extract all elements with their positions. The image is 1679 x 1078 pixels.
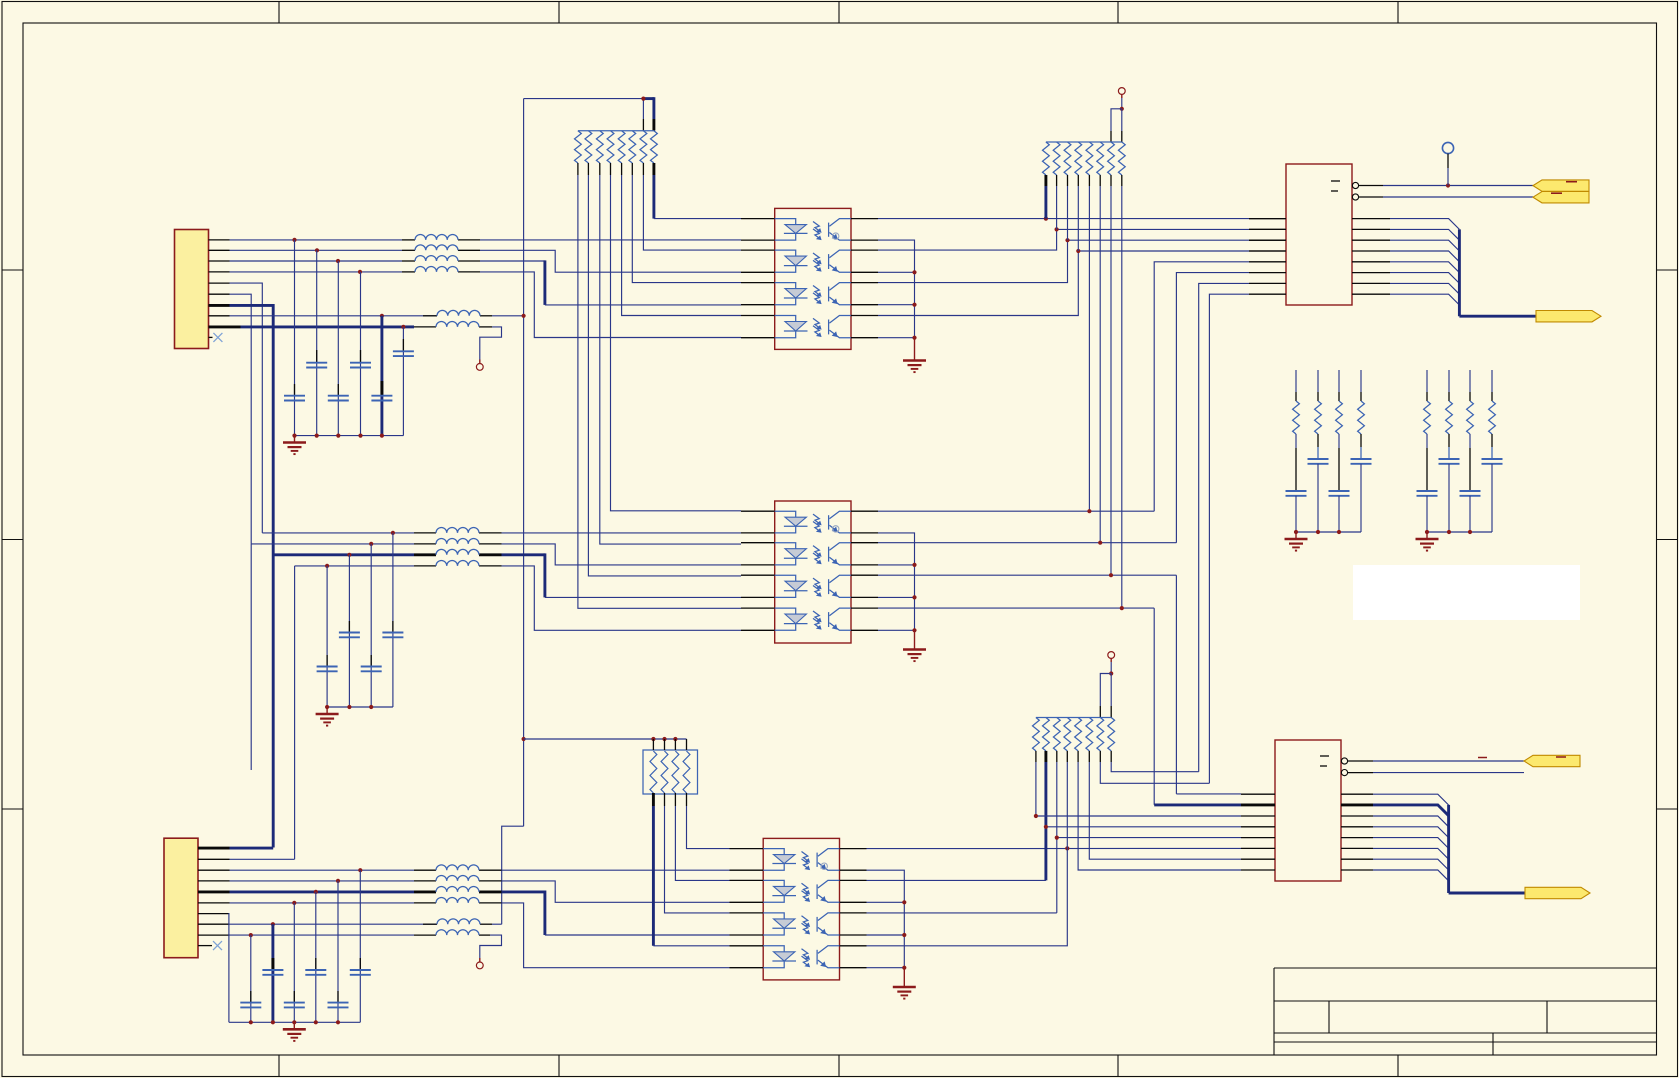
- capacitor C5f: [1417, 490, 1438, 492]
- wire U2 ch2 collector jog up to y229.4: [878, 229, 1249, 250]
- wire RN1.4 to opto anode1: [687, 806, 730, 849]
- resistor RP1.7: [640, 131, 647, 163]
- wire RP2.8 pull-up to mid ch4: [1121, 186, 1123, 608]
- wire x294 down to J2 pin2: [294, 566, 296, 859]
- J2 pin10 stub: [198, 945, 212, 947]
- capacitor C15: [284, 1002, 305, 1004]
- inductor L14: [436, 898, 479, 903]
- white note box: [1353, 565, 1580, 620]
- J2 pin3 stub: [198, 869, 230, 871]
- capacitor C9: [317, 666, 338, 668]
- resistor RP4.6: [1086, 718, 1093, 751]
- wire RP1.5 to opto anode4: [622, 175, 741, 316]
- resistor RP4.4: [1064, 718, 1071, 751]
- wire RP4.4 pull-up: [1066, 762, 1068, 848]
- U5 left pin stubs: [1241, 793, 1275, 795]
- inductor L1: [415, 235, 458, 240]
- wire J1.3 net row y261 jog to y305 (thick jog): [230, 260, 403, 262]
- connector J2: [164, 838, 198, 958]
- wire RP4.7 row y783: [1100, 762, 1209, 783]
- wire riser mid-ch2 to U1: [1176, 273, 1249, 543]
- U5 inverted output pins: [1341, 758, 1347, 764]
- inductor L12: [436, 876, 479, 881]
- red stub: [479, 360, 481, 364]
- wire U1 outA to arrow: [1383, 185, 1533, 187]
- resistor R4f: [1358, 401, 1365, 434]
- J1 pin3 stub: [209, 260, 230, 262]
- inductor L6: [436, 322, 479, 327]
- inductor L4: [415, 267, 458, 272]
- capacitor C12: [305, 969, 326, 971]
- border tick right: [1657, 808, 1678, 810]
- resistor array RP2 top bus: [1046, 141, 1122, 143]
- capacitor C2: [306, 362, 327, 364]
- ground GND8: [893, 987, 916, 999]
- wire RN1.1 thick to opto anode4: [652, 806, 655, 946]
- wire U2 emitter bus to ground: [878, 240, 915, 338]
- wire mid row y544 jog to y565: [251, 543, 414, 545]
- capacitor C10: [361, 666, 382, 668]
- inductor L3: [415, 256, 458, 261]
- gnd stem: [294, 436, 296, 442]
- wire RP1.2 to mid opto anode3: [588, 175, 741, 576]
- U5 right pin stubs: [1341, 793, 1373, 795]
- border tick top: [838, 2, 840, 24]
- gnd stem: [914, 338, 916, 360]
- capacitor C11: [262, 969, 283, 971]
- wire RP4.3 pull-up: [1056, 762, 1058, 913]
- border tick bottom: [838, 1055, 840, 1077]
- border tick left: [2, 539, 23, 541]
- wire U5 row y794: [1176, 793, 1241, 795]
- capacitor C8f: [1482, 458, 1503, 460]
- wire RP2.3 pull-up: [1067, 186, 1069, 240]
- resistor RN1.1: [650, 751, 657, 793]
- wire riser RP4.8 to U1: [1199, 283, 1249, 771]
- wire U3 ch3 collector to RN2.3: [867, 912, 1057, 914]
- IC U5 box: [1275, 740, 1341, 881]
- wire RP1.6 to opto anode3: [632, 175, 741, 283]
- border tick top: [278, 2, 280, 24]
- arrow: [1524, 755, 1580, 766]
- opto U3 channel 3: [763, 913, 839, 935]
- wire J2.6 row y903 jog to y968: [230, 902, 415, 904]
- resistor R1f: [1293, 401, 1300, 434]
- VCC circle symbol: [1442, 142, 1453, 153]
- resistor R8f: [1489, 401, 1496, 434]
- ground GND7: [283, 1029, 306, 1041]
- resistor R5f: [1424, 401, 1431, 434]
- opto U3 channel 1: [763, 849, 839, 871]
- J1 pin1 stub: [209, 239, 230, 241]
- title block: [1274, 967, 1657, 969]
- wire riser mid-ch4 down to U3 thick row: [1153, 608, 1155, 805]
- wire U3 ch1 collector row y848 to U5: [867, 847, 1242, 849]
- opto U4 channel 4: [775, 608, 851, 630]
- capacitor C13: [350, 969, 371, 971]
- capacitor C5: [371, 395, 392, 397]
- wire U5 outputs to bus: [1373, 794, 1449, 805]
- wire RP2.1 thick pull-up: [1044, 186, 1047, 219]
- no-connect X J2 pin10: [213, 941, 222, 950]
- wire RP4.8 row y772: [1111, 762, 1199, 772]
- J1 pin7 stub: [209, 304, 230, 307]
- wire RP4.5 to U5 row8: [1078, 762, 1241, 870]
- resistor R6f: [1446, 401, 1453, 434]
- capacitor C3: [328, 395, 349, 397]
- wire U5 outA to arrow: [1373, 760, 1524, 762]
- wire U3 ch2 collector to RN2.2: [867, 879, 1046, 881]
- J1 pin9 stub: [209, 325, 241, 328]
- U5 pin number marks: [1320, 755, 1329, 757]
- wire feed row y739 to RN1: [524, 738, 687, 740]
- opto U2 channel 2: [775, 250, 851, 272]
- wire mid row y533: [262, 532, 414, 534]
- resistor RP1.4: [607, 131, 614, 163]
- resistor RP1.6: [629, 131, 636, 163]
- wire riser RP4.7 to U1: [1209, 294, 1249, 783]
- J2 pin1 stub: [198, 847, 230, 850]
- arrow: [1533, 192, 1589, 203]
- wire J2.5 thick row y892 jog to y935: [230, 890, 415, 893]
- optocoupler U3 box: [763, 838, 839, 980]
- arrow: [1525, 887, 1590, 898]
- ground GND3: [316, 714, 339, 726]
- capacitor C7f: [1460, 490, 1481, 492]
- wire RP2.6 pull-up to mid ch2: [1099, 186, 1101, 543]
- wire U4 ch4 collector row y608: [878, 607, 1154, 609]
- capacitor C4f: [1351, 458, 1372, 460]
- border tick bottom: [278, 1055, 280, 1077]
- opto U4 channel 2: [775, 543, 851, 565]
- resistor RP4.2: [1043, 718, 1050, 751]
- wire U2 ch1 collector row y218.6: [878, 218, 1249, 220]
- wire RP1.3 to mid opto anode2: [600, 175, 741, 544]
- RC filter group 1: [1295, 370, 1297, 392]
- ground GND1: [283, 443, 306, 455]
- wire U4 emitter bus: [878, 533, 915, 630]
- J1 pin8 stub: [209, 315, 230, 317]
- capacitor C14: [240, 1002, 261, 1004]
- open circle no-ERC bottom: [476, 962, 483, 969]
- J1 pin5 stub: [209, 282, 230, 284]
- resistor array RP1 top bus: [578, 130, 654, 132]
- J1 pin10 stub: [209, 336, 213, 338]
- IC U1 box: [1286, 164, 1352, 305]
- wire VCC jog to x501: [502, 826, 524, 924]
- cap cluster top: verticals: [294, 240, 296, 436]
- bus thick vertical U5: [1447, 805, 1450, 893]
- J2 pin9 stub: [198, 934, 230, 936]
- capacitor C6: [393, 350, 414, 352]
- optocoupler U4 box: [775, 501, 851, 643]
- wire RN1.2 to opto anode3: [665, 806, 730, 913]
- cap cluster top: gnd bus: [295, 435, 404, 437]
- J2 pin7 stub: [198, 913, 230, 915]
- wire VCC feed y99: [524, 98, 644, 100]
- J2 pin8 stub: [198, 923, 230, 925]
- resistor RP4.1: [1033, 718, 1040, 751]
- cap cluster bottom verticals: [250, 935, 252, 1022]
- wire U1 outputs to bus: [1390, 219, 1459, 230]
- opto U2 channel 4: [775, 316, 851, 338]
- capacitor C3f: [1329, 490, 1350, 492]
- J1 pin6 stub: [209, 293, 230, 295]
- RC filter group 2: [1426, 370, 1428, 392]
- border tick bottom: [1397, 1055, 1399, 1077]
- wire mid row y566 jog to y630: [295, 565, 414, 567]
- wire U1 outB to arrow: [1383, 196, 1533, 198]
- arrow: [1536, 311, 1601, 322]
- wire RP4.2 thick pull-up: [1044, 762, 1047, 880]
- capacitor C1f: [1286, 490, 1307, 492]
- J1 pin2 stub: [209, 249, 230, 251]
- ground GND4: [903, 650, 926, 662]
- resistor RP4.3: [1053, 718, 1060, 751]
- border tick top: [1117, 2, 1119, 24]
- resistor RP1.2: [585, 131, 592, 163]
- resistor RP1.5: [618, 131, 625, 163]
- resistor RP2.1: [1043, 142, 1050, 175]
- wire U4 ch3 collector row y575: [878, 574, 1176, 576]
- opto U3 channel 2: [763, 880, 839, 902]
- wire U4 ch1 collector row y511: [878, 510, 1154, 512]
- wire J2.8 row y924: [230, 923, 438, 925]
- border tick right: [1657, 269, 1678, 271]
- wire U2 ch3 collector jog up to y240.2: [878, 240, 1249, 282]
- border tick left: [2, 808, 23, 810]
- bottom gnd bus: [229, 1021, 360, 1023]
- wire U2 ch4 collector jog up to y251: [878, 251, 1249, 316]
- border tick bottom: [558, 1055, 560, 1077]
- resistor RP2.6: [1097, 142, 1104, 175]
- inductor L11: [436, 865, 479, 870]
- inductor L5: [437, 310, 480, 315]
- J2 pin4 stub: [198, 880, 230, 882]
- capacitor C1: [284, 395, 305, 397]
- open circle supply top-right: [1118, 88, 1125, 95]
- wire U5 row y805 thick: [1154, 803, 1241, 806]
- opto U2 channel 3: [775, 283, 851, 305]
- capacitor C16: [328, 1002, 349, 1004]
- wire J1.7 thick vertical to conn J2 pin1: [230, 304, 274, 307]
- resistor RN1.4: [683, 751, 690, 793]
- wire RP1.7 to opto anode2: [643, 175, 741, 250]
- inductor L15: [437, 919, 480, 924]
- resistor R7f: [1467, 401, 1474, 434]
- resistor RP1.8: [651, 131, 658, 163]
- border tick left: [2, 269, 23, 271]
- open circle no-ERC top: [476, 364, 483, 371]
- connector J1: [175, 230, 209, 349]
- J2 pin6 stub: [198, 902, 230, 904]
- wire J2.2 to x294: [230, 858, 295, 860]
- inductor L9: [436, 549, 479, 554]
- opto U3 channel 4: [763, 946, 839, 968]
- wire J1.6 to middle row y544: [230, 294, 252, 544]
- resistor RP4.7: [1097, 718, 1104, 751]
- opto U2 channel 1: [775, 219, 851, 241]
- wire U5 row y827: [1046, 826, 1241, 828]
- wire J1.2 net row y250 jog to y272: [230, 249, 403, 251]
- inductor L2: [415, 245, 458, 250]
- wire U3 ch4 collector riser: [867, 848, 1068, 945]
- inductor L10: [436, 561, 479, 566]
- wire J2.1 thick to x273: [230, 847, 274, 850]
- resistor RP2.2: [1053, 142, 1060, 175]
- wire RP4.1 pull-up: [1035, 762, 1037, 816]
- resistor network RN1 box: [643, 750, 698, 794]
- wire U5 row y816: [1036, 815, 1241, 817]
- inductor L8: [436, 539, 479, 544]
- arrow: [1533, 180, 1589, 191]
- wire RN1.3 to opto anode2: [675, 806, 729, 880]
- resistor RP4.5: [1075, 718, 1082, 751]
- ground GND6: [1416, 539, 1439, 551]
- wire J2.4 row y881 jog to y902: [230, 880, 415, 882]
- resistor RP2.8: [1118, 142, 1125, 175]
- border tick bottom: [1117, 1055, 1119, 1077]
- wire RP1.8 thick to opto anode1: [652, 175, 655, 219]
- wire J2.3 row y870: [230, 869, 415, 871]
- wire VCC vertical x523: [523, 99, 525, 827]
- wire mid row y555 thick jog to y597: [273, 553, 414, 556]
- border tick right: [1657, 539, 1678, 541]
- wire RP4.6 to U5 row7: [1089, 762, 1241, 859]
- U1 right pin stubs: [1352, 218, 1390, 220]
- J2 pin5 stub: [198, 890, 230, 893]
- wire U4 ch2 collector row y543: [878, 542, 1176, 544]
- ground GND5: [1285, 539, 1308, 551]
- wire U3 emitter bus: [867, 870, 905, 968]
- optocoupler U2 box: [775, 208, 851, 349]
- wire U5 row y838: [1057, 837, 1241, 839]
- resistor RN1.2: [661, 751, 668, 793]
- resistor R2f: [1315, 401, 1322, 434]
- J2 pin2 stub: [198, 858, 230, 860]
- wire stub below jog: [250, 544, 252, 770]
- opto U4 channel 3: [775, 575, 851, 597]
- opto U4 channel 1: [775, 511, 851, 533]
- wire J1.1 net row y240: [230, 239, 403, 241]
- inductor L7: [436, 528, 479, 533]
- J1 pin4 stub: [209, 271, 230, 273]
- wire J1.4 net row y272 jog to y337: [230, 271, 403, 273]
- wire RP2.4 pull-up: [1077, 186, 1079, 251]
- border tick top: [558, 2, 560, 24]
- no-connect X J1 pin10: [213, 333, 222, 342]
- capacitor C6f: [1439, 458, 1460, 460]
- capacitor C7: [339, 632, 360, 634]
- mid gnd bus: [327, 706, 393, 708]
- inductor L16: [436, 930, 479, 935]
- wire J1.8 row y316: [230, 315, 438, 317]
- resistor RP1.1: [575, 131, 582, 163]
- resistor array RP4 top bus: [1036, 717, 1111, 719]
- resistor RP2.5: [1086, 142, 1093, 175]
- wire riser mid-ch1 to U1: [1154, 262, 1249, 511]
- wire U5 outB: [1373, 772, 1524, 774]
- resistor R3f: [1336, 401, 1343, 434]
- bus thick vertical U1: [1458, 229, 1461, 316]
- capacitor C2f: [1308, 458, 1329, 460]
- cap cluster mid verticals: [326, 566, 328, 707]
- inductor L13: [436, 887, 479, 892]
- resistor RP1.3: [596, 131, 603, 163]
- wire riser mid-ch3 down to U3: [1175, 575, 1177, 794]
- wire J1.5 to middle row y533: [230, 283, 263, 533]
- wire RP2.5 pull-up to mid ch1: [1088, 186, 1090, 511]
- resistor RP2.4: [1075, 142, 1082, 175]
- wire J2.9 row y935 to open circle: [230, 934, 415, 936]
- U1 inverted output pins: [1352, 182, 1358, 188]
- U1 pin number marks: [1331, 180, 1340, 182]
- ground GND2: [903, 361, 926, 373]
- capacitor C4: [350, 362, 371, 364]
- U1 left pin stubs: [1249, 218, 1286, 220]
- wire RP1.4 to mid opto anode1: [611, 175, 742, 511]
- wire RP1.1 to mid opto anode4: [578, 175, 741, 608]
- wire RP2.2 pull-up: [1056, 186, 1058, 229]
- open circle supply bottom-right: [1108, 652, 1115, 659]
- wire RP2.7 pull-up to mid ch3: [1110, 186, 1112, 575]
- wire J1.9 thick row y327: [241, 325, 404, 328]
- resistor RP2.3: [1064, 142, 1071, 175]
- wire J2.7 to gnd bus: [228, 914, 231, 1023]
- resistor RP4.8: [1108, 718, 1115, 751]
- resistor RP2.7: [1108, 142, 1115, 175]
- capacitor C8: [382, 632, 403, 634]
- border tick top: [1397, 2, 1399, 24]
- resistor RN1.3: [672, 751, 679, 793]
